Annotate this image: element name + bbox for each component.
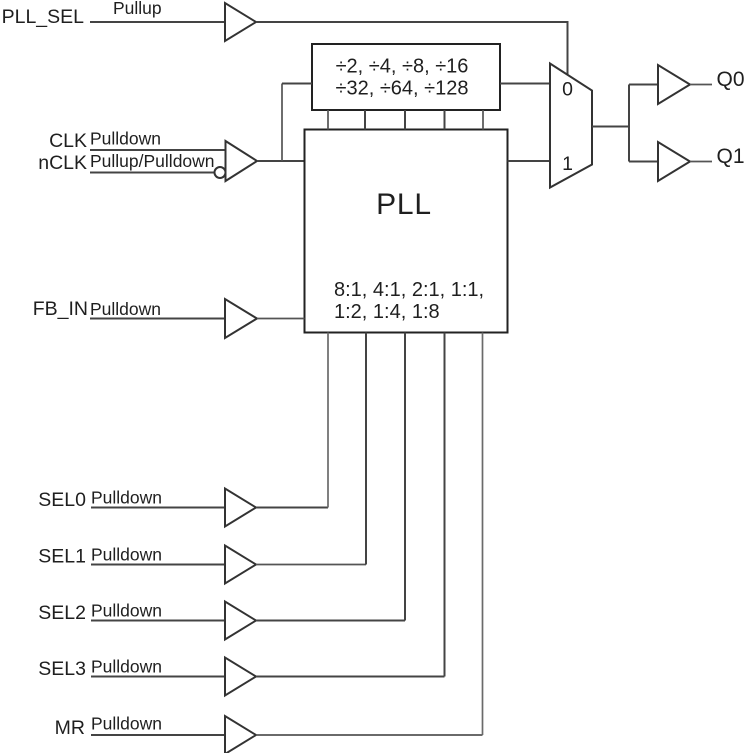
wire SEL1 output (256, 564, 366, 566)
svg-text:FB_IN: FB_IN (33, 298, 88, 320)
wire clock branch horizontal to divider (282, 83, 312, 85)
buffer Q0 (658, 65, 690, 104)
svg-text:Pullup: Pullup (113, 0, 162, 18)
wire SEL3 riser (444, 333, 446, 677)
wire tick divider-PLL 2 (364, 110, 366, 130)
svg-text:Q0: Q0 (717, 68, 745, 91)
svg-text:÷2, ÷4, ÷8, ÷16: ÷2, ÷4, ÷8, ÷16 (336, 56, 469, 78)
wire FB_IN input (90, 318, 225, 320)
svg-text:SEL3: SEL3 (38, 658, 86, 680)
inverting bubble nCLK (215, 167, 226, 178)
wire SEL0 riser (327, 333, 329, 508)
svg-text:nCLK: nCLK (38, 152, 87, 174)
wire SEL2 riser (404, 333, 406, 621)
wire SEL2 output (256, 620, 405, 622)
buffer SEL0 (225, 489, 256, 527)
svg-text:Q1: Q1 (717, 145, 745, 168)
wire CLK input (90, 149, 226, 151)
buffer CLK/nCLK (226, 141, 258, 181)
wire tick divider-PLL 5 (482, 110, 484, 130)
svg-text:0: 0 (562, 79, 573, 101)
svg-text:SEL0: SEL0 (38, 489, 86, 511)
wire SEL1 input (91, 564, 225, 566)
wire output branch vertical (628, 85, 630, 162)
PLL box (305, 130, 508, 333)
wire clock branch vertical to divider (281, 84, 283, 162)
buffer MR (225, 716, 256, 753)
wire clock buffer output (257, 160, 305, 162)
wire mux output (592, 126, 629, 128)
svg-text:Pullup/Pulldown: Pullup/Pulldown (90, 151, 215, 171)
svg-text:1:2, 1:4, 1:8: 1:2, 1:4, 1:8 (334, 301, 440, 323)
wire PLL_SEL input (90, 21, 225, 23)
wire SEL0 output (256, 507, 328, 509)
mux (550, 64, 592, 188)
svg-text:CLK: CLK (49, 130, 87, 152)
wire tick divider-PLL 3 (404, 110, 406, 130)
wire Q1 output (690, 161, 712, 163)
svg-text:Pulldown: Pulldown (91, 488, 162, 508)
svg-text:MR: MR (55, 717, 85, 739)
svg-text:SEL1: SEL1 (38, 546, 86, 568)
buffer SEL2 (225, 602, 256, 640)
wire SEL2 input (91, 620, 225, 622)
buffer PLL_SEL (225, 3, 256, 41)
wire PLL output to mux input 1 (508, 160, 551, 162)
svg-text:÷32, ÷64, ÷128: ÷32, ÷64, ÷128 (335, 78, 468, 100)
svg-text:Pulldown: Pulldown (90, 129, 161, 149)
wire divider output to mux input 0 (500, 83, 550, 85)
svg-text:PLL_SEL: PLL_SEL (2, 6, 85, 28)
wire tick divider-PLL 1 (327, 110, 329, 130)
svg-text:Pulldown: Pulldown (91, 657, 162, 677)
svg-text:Pulldown: Pulldown (90, 299, 161, 319)
wire nCLK input (90, 172, 215, 174)
wire MR riser (482, 333, 484, 736)
svg-text:1: 1 (562, 153, 573, 175)
svg-text:Pulldown: Pulldown (91, 714, 162, 734)
buffer SEL3 (225, 658, 256, 696)
wire Q0 output (690, 84, 712, 86)
svg-text:Pulldown: Pulldown (91, 545, 162, 565)
wire tick divider-PLL 4 (444, 110, 446, 130)
wire SEL3 output (256, 676, 445, 678)
buffer SEL1 (225, 546, 256, 584)
wire SEL1 riser (365, 333, 367, 565)
svg-text:SEL2: SEL2 (38, 602, 86, 624)
wire MR input (91, 734, 225, 736)
svg-text:Pulldown: Pulldown (91, 601, 162, 621)
wire to Q1 buffer (629, 161, 658, 163)
buffer Q1 (658, 142, 690, 181)
wire SEL3 input (91, 676, 225, 678)
wire FB_IN to PLL (257, 318, 305, 320)
wire PLL_SEL to mux select horizontal (256, 21, 568, 23)
wire MR output (256, 734, 483, 736)
buffer FB_IN (225, 299, 257, 338)
svg-text:PLL: PLL (376, 188, 432, 221)
svg-text:8:1, 4:1, 2:1, 1:1,: 8:1, 4:1, 2:1, 1:1, (334, 279, 484, 301)
divider box (312, 44, 500, 110)
wire SEL0 input (91, 507, 225, 509)
wire PLL_SEL to mux select vertical (567, 21, 569, 75)
wire to Q0 buffer (629, 84, 658, 86)
